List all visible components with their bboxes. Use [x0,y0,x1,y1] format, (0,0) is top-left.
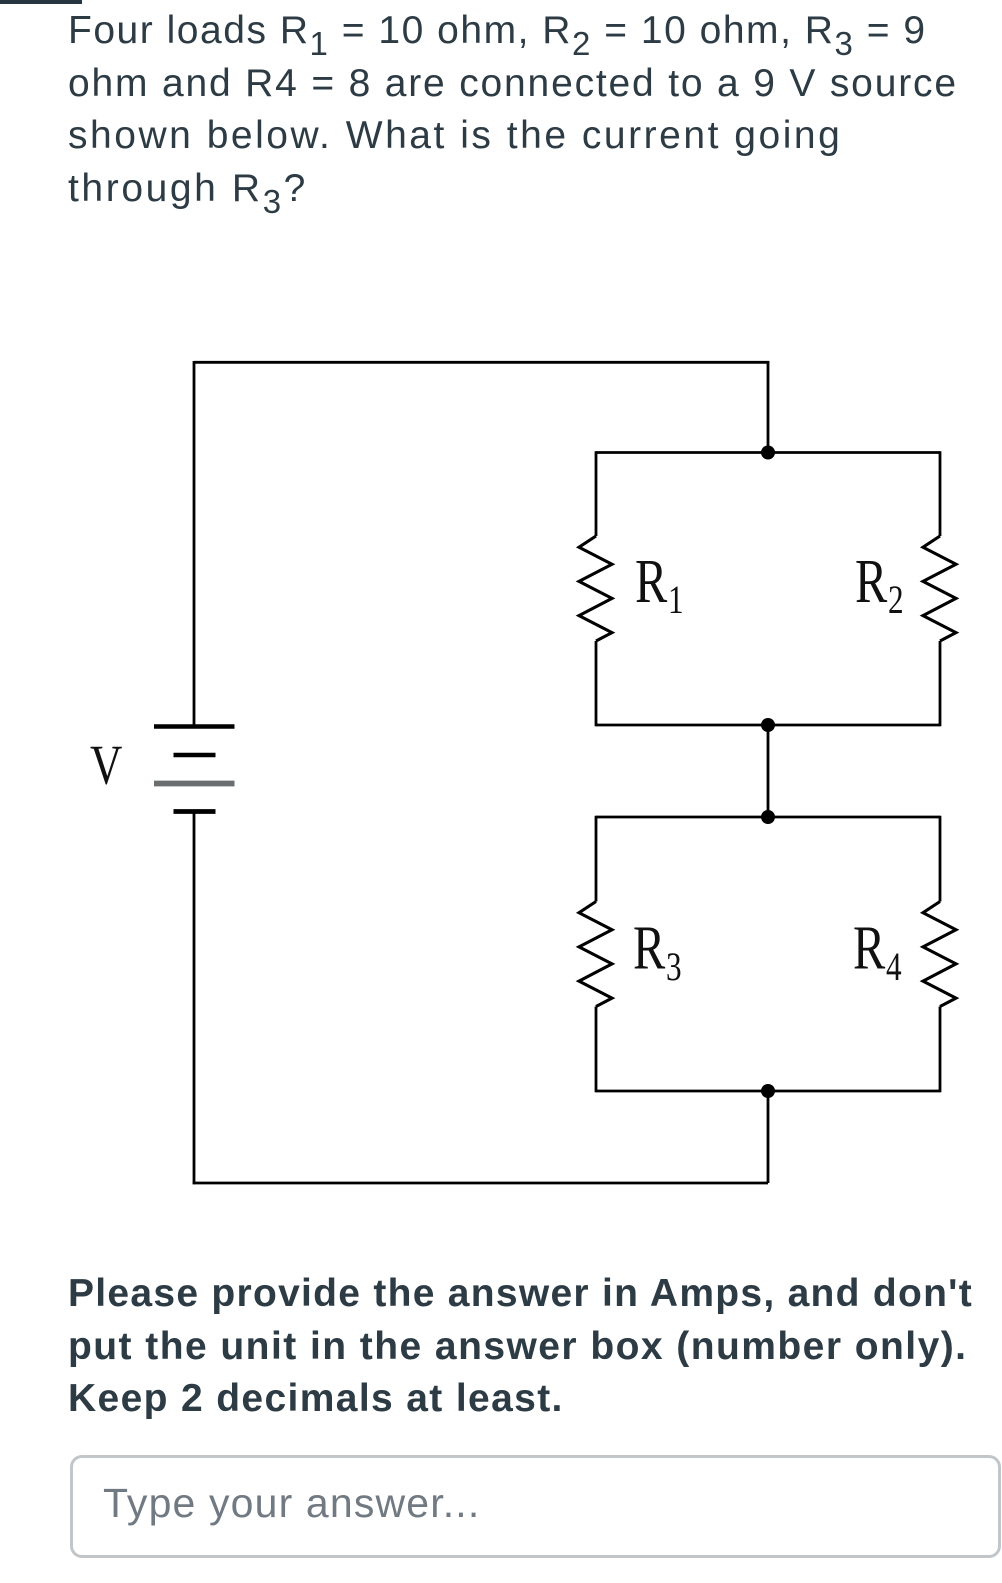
svg-text:2: 2 [888,577,904,622]
svg-text:R: R [633,914,665,983]
resistor R4 zigzag [923,902,956,1007]
battery V plate short bottom [174,809,216,814]
battery V plate long lower (gray) [154,781,235,787]
wire: section 2 bottom rail [596,1090,940,1093]
node C junction dot [761,810,775,824]
wire: R1 branch upper lead [595,451,598,536]
answer input box [70,1455,1001,1558]
svg-text:R: R [635,547,667,616]
wire: bottom rail [193,1182,768,1185]
wire: R3 branch lower lead [595,1007,598,1093]
instruction text [68,1268,973,1426]
svg-text:R: R [853,914,885,983]
resistor R2 zigzag [923,536,956,641]
wire: R2 branch upper lead [939,451,942,536]
svg-text:R: R [855,547,887,616]
svg-text:4: 4 [886,944,902,989]
node B junction dot [761,718,775,732]
wire: left vertical from battery to bottom rail [193,814,196,1185]
label R1 [635,547,684,622]
wire: section 1 bottom rail [596,724,940,727]
label R2 [855,547,904,622]
wire: R4 branch lower lead [939,1007,942,1093]
wire: R4 branch upper lead [939,816,942,902]
wire: middle link from node B to node C [767,725,770,817]
node D junction dot [761,1084,775,1098]
resistor R1 zigzag [579,536,612,641]
svg-text:V: V [90,734,123,796]
wire: bottom vertical from node D up to section 2 [767,1091,770,1183]
wire: R2 branch lower lead [939,641,942,726]
wire: section 1 top rail [596,451,940,454]
label R3 [633,914,682,989]
wire: section 2 top rail [596,816,940,819]
label R4 [853,914,902,989]
svg-text:3: 3 [666,944,682,989]
wire: right vertical drop from top rail to node A [767,361,770,453]
wire: R3 branch upper lead [595,816,598,902]
svg-text:1: 1 [668,577,684,622]
battery V plate short upper [174,753,216,758]
wire: left vertical from top rail to battery [193,361,196,725]
wire: R1 branch lower lead [595,641,598,726]
question text [68,5,958,215]
top-left dark bar [0,0,82,4]
resistor R3 zigzag [579,902,612,1007]
node A junction dot [761,446,775,460]
battery V plate long top [154,724,235,728]
wire: top rail from battery to right drop [194,361,769,364]
